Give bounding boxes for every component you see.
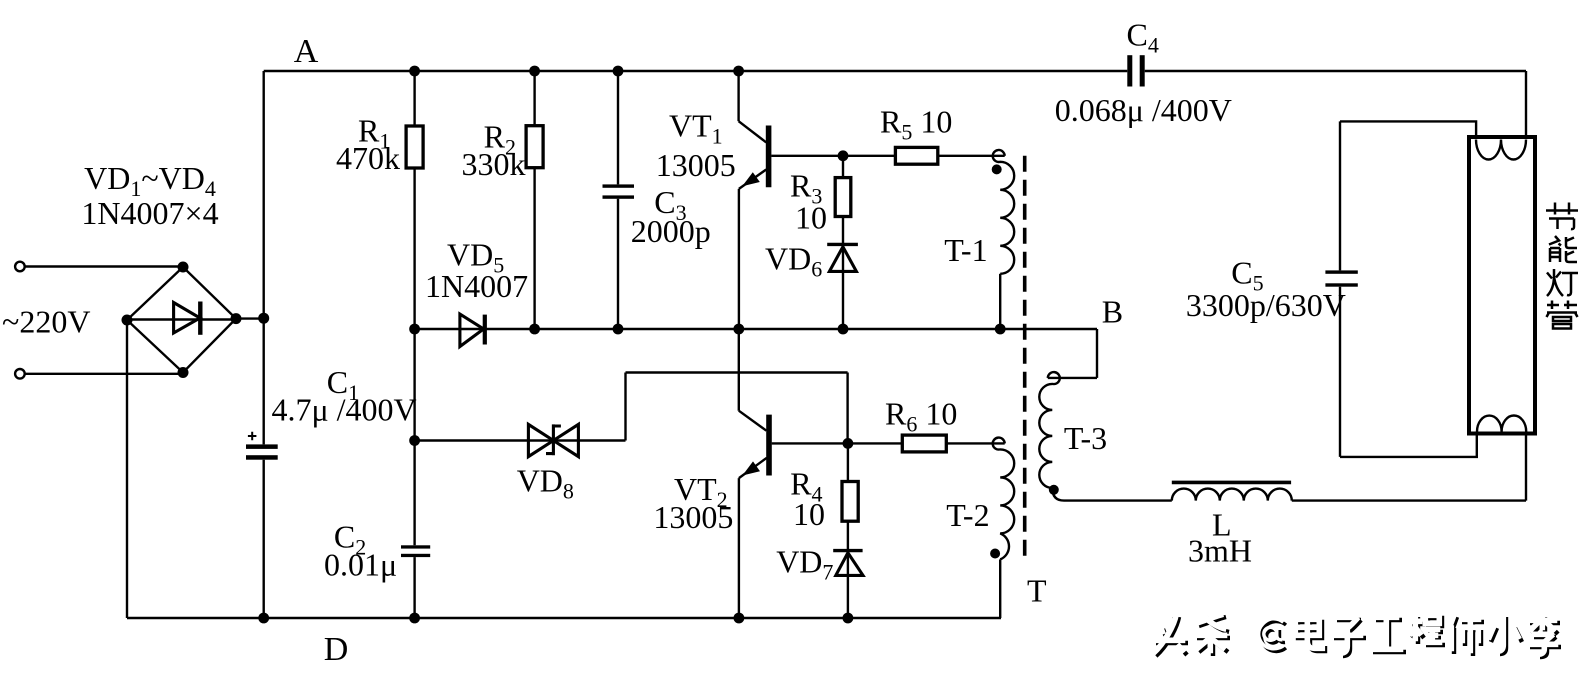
junction dot bridge right [231,313,242,324]
svg-text:0.01μ: 0.01μ [324,547,397,583]
wire left column above C1 [263,71,265,444]
wire VT2 collector from mid rail [738,329,740,411]
wire R3 column [842,156,844,329]
wire left column below C1 [263,460,265,618]
junction dot bottom rail C2 [409,613,420,624]
inductor L core bar [1172,481,1291,485]
junction dot bottom rail R4 [843,613,854,624]
wire R1 column top [413,71,415,126]
svg-text:470k: 470k [336,140,400,176]
wire R6 to T-2 [946,442,1004,444]
lamp bottom filament [1477,416,1526,432]
svg-text:T-3: T-3 [1064,420,1107,456]
svg-text:3300p/630V: 3300p/630V [1186,287,1346,323]
terminal upper input [15,262,25,272]
wire C5 loop bottom [1340,434,1477,457]
T-2 phase dot [990,549,1000,559]
lamp tube [1469,137,1535,434]
transformer core dashed line [1023,156,1027,562]
resistor R3 [835,178,851,217]
junction dot VT1 base R3 [838,150,849,161]
junction dot top rail R1 [409,66,420,77]
wire bridge output to left column [236,317,264,319]
wire AC input lower [25,373,183,375]
svg-text:T-2: T-2 [946,497,989,533]
junction dot VD8 line [409,435,420,446]
wire node B to T-3 [1048,377,1097,379]
wire bottom rail node D [127,617,1001,619]
wire R2 column top [533,71,535,126]
junction dot bottom rail VT2 [734,613,745,624]
junction dot bridge bottom [178,367,189,378]
svg-text:4.7μ /400V: 4.7μ /400V [272,392,417,428]
wire mid rail corner down to node B [1096,329,1098,378]
svg-text:0.068μ /400V: 0.068μ /400V [1055,92,1232,128]
svg-text:13005: 13005 [656,147,736,183]
svg-text:T-1: T-1 [944,232,987,268]
wire R1 column to mid rail [413,168,415,329]
svg-text:10: 10 [793,496,825,532]
wire T-2 bottom to bottom rail [999,559,1001,618]
wire C3 column top [617,71,619,184]
wire AC input upper [25,265,183,267]
svg-text:330k: 330k [462,146,526,182]
junction dot mid rail VT1 emitter [733,324,744,335]
resistor R1 [406,126,423,168]
diode VD5 [460,314,485,346]
wire C5 loop top [1340,121,1476,138]
wire C5 loop left upper [1339,121,1341,270]
svg-text:2000p: 2000p [631,213,711,249]
capacitor C5 [1325,270,1357,286]
diode VD6 [827,244,858,271]
svg-text:13005: 13005 [653,499,733,535]
svg-text:T: T [1027,573,1047,609]
wire bridge minus down [126,320,128,618]
wire VT1 emitter to mid rail [738,189,740,329]
transformer winding T-3 [1039,372,1059,488]
wire VD8 column [413,329,415,545]
junction dot VT2 base R4 [843,438,854,449]
svg-text:~220V: ~220V [2,304,90,340]
label lamp (CJK vertical 节能灯管) [1546,203,1578,329]
junction dot bridge top [178,262,189,273]
terminal lower input [15,369,25,379]
svg-text:D: D [324,631,349,668]
capacitor C1 [246,432,278,460]
capacitor C3 [603,184,635,198]
wire VD8 line up [624,373,626,441]
svg-text:A: A [294,33,319,70]
junction dot mid rail R1 [409,324,420,335]
wire T-3 bottom exit [1052,488,1172,501]
wire VD8 line across [626,371,848,373]
junction dot bridge output node [258,313,269,324]
wire VD8 line from left column [415,439,626,441]
wire R4 column [847,443,849,618]
junction dot mid rail R3 [838,324,849,335]
junction dot top rail VT1 [733,66,744,77]
wire VD8 line down to VT2 base [846,373,848,444]
wire lamp bottom right down [1525,434,1527,501]
junction dot top rail R2 [529,66,540,77]
wire VT2 emitter to bottom rail [738,478,740,618]
wire VT1 collector from top rail [737,71,739,121]
wire from top rail down to lamp top right [1525,71,1527,138]
resistor R5 [895,147,937,164]
svg-text:R5 10: R5 10 [880,104,952,145]
resistor R4 [842,482,858,522]
wire top rail node A left segment [264,70,1128,72]
junction dot bridge left [122,315,133,326]
svg-text:R6 10: R6 10 [885,396,957,437]
wire L to lamp [1292,499,1526,501]
junction dot bottom rail C1 [258,613,269,624]
svg-text:1N4007×4: 1N4007×4 [81,195,218,231]
wire R5 to T-1 [938,155,1005,157]
junction dot mid rail T-1 [995,324,1006,335]
wire C3 column to mid rail [617,199,619,329]
bridge rectifier VD1-VD4 diamond [127,267,236,373]
transformer winding T-1 [993,150,1014,274]
diac VD8 [528,424,578,456]
lamp top filament [1476,140,1526,160]
transformer winding T-2 [993,438,1014,560]
junction dot mid rail C3 [613,324,624,335]
wire top rail right of C4 [1145,70,1526,72]
capacitor C4 [1127,55,1144,86]
wire VT1 base line [771,155,895,157]
transistor VT2 [739,411,769,478]
wire T-1 bottom to mid rail [999,274,1001,329]
T-3 phase dot [1049,485,1059,495]
junction dot top rail C3 [613,66,624,77]
svg-text:B: B [1102,294,1123,330]
transistor VT1 [739,121,769,189]
svg-text:10: 10 [795,200,827,236]
diode VD7 [833,551,863,576]
T-1 phase dot [992,164,1002,174]
bridge internal diode [174,302,201,335]
capacitor C2 [401,545,430,557]
svg-text:3mH: 3mH [1188,533,1252,569]
resistor R6 [902,435,946,452]
wire C5 loop left lower [1339,287,1341,457]
wire VT2 base line [772,442,903,444]
wire C2 to bottom rail [413,557,415,618]
resistor R2 [526,126,543,168]
junction dot mid rail R2 [529,324,540,335]
wire mid rail [415,328,1097,330]
svg-text:1N4007: 1N4007 [425,268,528,304]
wire R2 column to mid rail [533,168,535,329]
inductor L [1172,489,1292,501]
bridge internal diode through line [127,318,236,320]
